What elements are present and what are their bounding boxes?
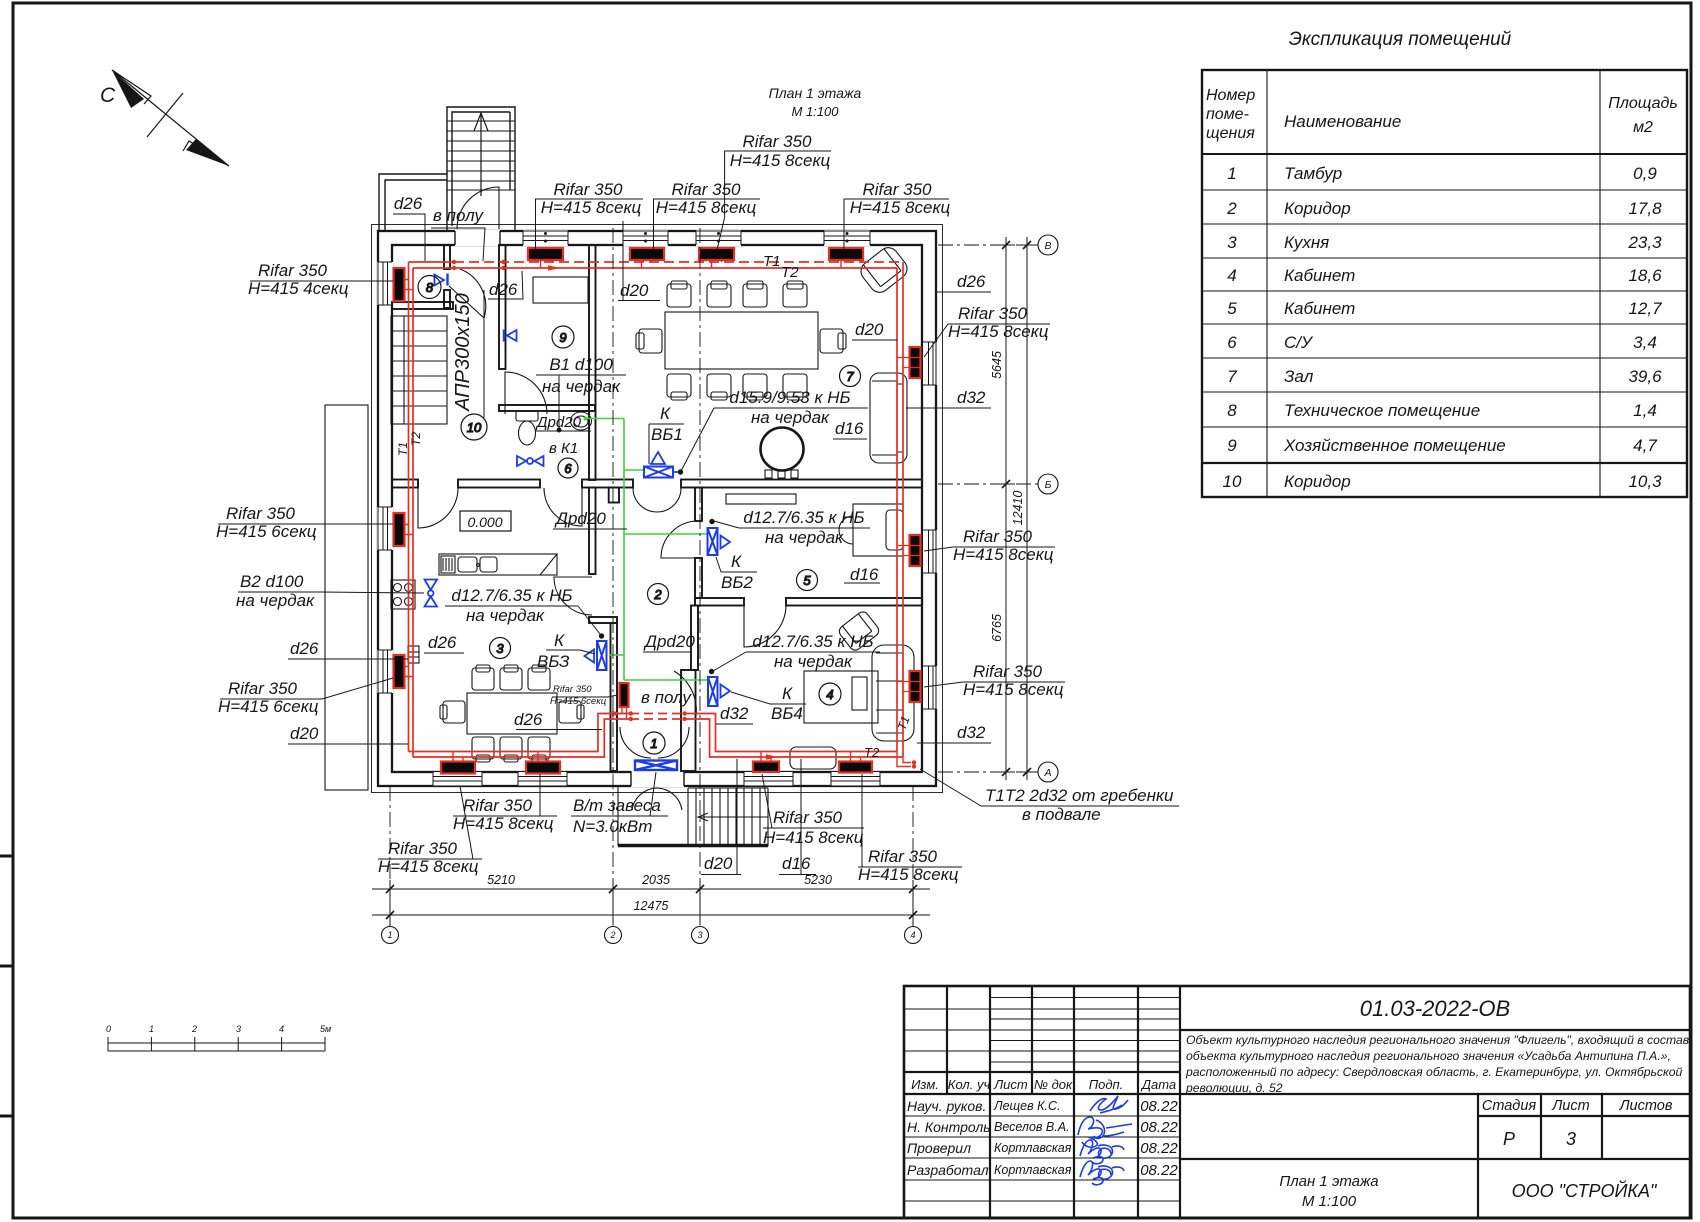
label K VB3 bracket [546, 650, 595, 654]
room9 door [505, 372, 547, 414]
axis circles bottom [382, 927, 922, 944]
washbasin [571, 412, 592, 430]
radiator branches bottom [453, 752, 463, 762]
svg-text:d12.7/6.35 к НБ: d12.7/6.35 к НБ [451, 586, 572, 605]
valve corridor10 [503, 330, 505, 342]
svg-text:2: 2 [1226, 199, 1237, 218]
top label A leader [535, 199, 643, 250]
svg-text:А: А [1043, 767, 1051, 779]
radiator right P2 [910, 535, 921, 566]
svg-text:H=415 8секц: H=415 8секц [858, 865, 959, 884]
round stove [761, 428, 804, 471]
tambour inner double door [620, 727, 689, 758]
svg-text:в К1: в К1 [549, 440, 578, 457]
tambour right wall [681, 670, 696, 771]
svg-text:d12.7/6.35 к НБ: d12.7/6.35 к НБ [743, 508, 864, 527]
dim line bottom 2 [372, 914, 930, 916]
label d15.9 leader [681, 408, 868, 471]
pipe T1 top dashed [409, 261, 455, 263]
label d20-hall underline [618, 221, 660, 301]
svg-text:12475: 12475 [634, 899, 669, 913]
svg-text:08.22: 08.22 [1140, 1098, 1178, 1115]
svg-text:Rifar 350: Rifar 350 [743, 132, 813, 151]
svg-text:3: 3 [1227, 233, 1237, 252]
svg-text:5230: 5230 [804, 873, 832, 887]
label d16-hall underline [833, 438, 867, 440]
svg-text:3: 3 [236, 1024, 241, 1034]
porch entrance opening in top wall [455, 230, 500, 246]
svg-text:М 1:100: М 1:100 [792, 104, 840, 119]
svg-text:3: 3 [496, 641, 504, 656]
radiator left L2 [394, 513, 405, 546]
pipe tambour dashed in floor [630, 714, 685, 720]
label L3 leader [220, 678, 393, 699]
radiator branches left [405, 280, 414, 290]
room5 shelf [726, 494, 796, 504]
label d32-right-bot underline [917, 742, 991, 744]
svg-text:10: 10 [467, 420, 482, 435]
pipe bottom right pair [685, 714, 903, 758]
svg-text:9: 9 [1227, 436, 1237, 455]
toilet [516, 411, 538, 421]
svg-text:d16: d16 [850, 565, 879, 584]
svg-text:2: 2 [653, 587, 662, 602]
svg-text:Rifar 350: Rifar 350 [226, 504, 296, 523]
label rifar-B4 leader [858, 774, 962, 867]
svg-text:расположенный по адресу: Св: расположенный по адресу: Свердловская об… [1185, 1065, 1683, 1079]
label d26-wall underline [424, 652, 464, 654]
svg-text:ВБ1: ВБ1 [651, 425, 683, 444]
label d26-left leader [288, 658, 408, 660]
svg-text:Коридор: Коридор [1284, 199, 1351, 218]
svg-text:d26: d26 [957, 272, 986, 291]
svg-text:Н. Контроль: Н. Контроль [907, 1119, 991, 1135]
svg-text:d15.9/9.53 к НБ: d15.9/9.53 к НБ [729, 388, 850, 407]
svg-text:В1 d100: В1 d100 [549, 355, 613, 374]
label B1d100 leader [536, 375, 626, 428]
svg-text:2: 2 [609, 930, 615, 940]
radiator top R3 [699, 248, 734, 260]
svg-text:К: К [731, 552, 742, 571]
svg-text:3,4: 3,4 [1633, 333, 1657, 352]
node room 9 [552, 326, 574, 348]
label L1 leader [250, 280, 393, 282]
svg-text:Изм.: Изм. [911, 1077, 939, 1092]
label d12.7 vb3 leader [445, 606, 600, 634]
label rifar-P2 leader [924, 547, 1055, 551]
svg-text:H=415 8секц: H=415 8секц [948, 322, 1049, 341]
svg-text:Лещев К.С.: Лещев К.С. [993, 1099, 1060, 1113]
pipe right vertical pair [897, 262, 903, 757]
svg-text:12,7: 12,7 [1628, 299, 1662, 318]
svg-text:План 1 этажа: План 1 этажа [769, 85, 862, 101]
svg-text:4: 4 [826, 687, 833, 702]
svg-text:Науч. руков.: Науч. руков. [907, 1098, 986, 1114]
label drd20-wc underline [535, 430, 591, 432]
node room 8 [418, 276, 441, 299]
room9 cupboard [533, 277, 588, 303]
label d26-kitchen underline [516, 729, 602, 731]
label K VB1 bracket [649, 424, 684, 464]
room4 door [744, 605, 786, 647]
room10-kitchen door [418, 488, 458, 528]
svg-text:Проверил: Проверил [907, 1140, 971, 1156]
svg-text:Кабинет: Кабинет [1284, 266, 1355, 285]
svg-text:d32: d32 [957, 388, 986, 407]
svg-text:3: 3 [697, 930, 702, 940]
label rifar-B1 leader [378, 786, 482, 859]
svg-text:ВБ2: ВБ2 [721, 573, 753, 592]
corridor2-tambour side arc [674, 671, 696, 716]
svg-text:щения: щения [1206, 125, 1255, 142]
svg-text:Подп.: Подп. [1089, 1077, 1124, 1092]
svg-text:5м: 5м [320, 1024, 331, 1034]
radiator bottom B1 [441, 762, 475, 774]
svg-text:8: 8 [426, 280, 434, 295]
svg-text:Т2: Т2 [864, 745, 880, 760]
wall room8 right [444, 245, 450, 269]
pipe bottom left pair [409, 714, 631, 758]
radiator top R1 [528, 248, 563, 260]
label d12.7 vb4 leader [713, 652, 880, 671]
svg-text:№ док: № док [1034, 1077, 1073, 1092]
room6 door [544, 488, 582, 526]
label d16-room5 underline [844, 582, 880, 584]
porch door [457, 187, 499, 229]
svg-text:в полу: в полу [433, 206, 484, 225]
label K VB4 bracket [731, 692, 806, 704]
svg-text:0,9: 0,9 [1633, 164, 1657, 183]
svg-text:d16: d16 [782, 854, 811, 873]
label d20-left leader [288, 743, 408, 745]
label d20-right underline [852, 339, 897, 341]
svg-text:H=415 8секц: H=415 8секц [541, 198, 642, 217]
svg-text:Техническое помещение: Техническое помещение [1284, 401, 1480, 420]
radiator branch tambour [622, 707, 627, 719]
radiator right P3 [910, 671, 921, 702]
label rifar-P3 leader [924, 682, 1065, 687]
svg-text:H=415 8секц: H=415 8секц [730, 151, 831, 170]
kitchen east wall [589, 488, 596, 575]
svg-text:объекта культурного наследия: объекта культурного наследия регионально… [1186, 1049, 1671, 1063]
scale bar [106, 1024, 331, 1051]
svg-text:Номер: Номер [1206, 87, 1255, 104]
svg-text:18,6: 18,6 [1628, 266, 1662, 285]
top label B leader [653, 199, 760, 250]
toilet valve group [517, 456, 544, 466]
radiator tambour [620, 683, 629, 707]
svg-text:на чердак: на чердак [466, 606, 545, 625]
window openings: top wall [523, 230, 870, 246]
wall room8 bottom [392, 302, 453, 309]
node room 7 [840, 366, 861, 387]
label apr duct line [483, 290, 485, 418]
label 0.000 frame [460, 511, 511, 531]
svg-text:К: К [554, 631, 565, 650]
svg-text:4,7: 4,7 [1633, 436, 1657, 455]
svg-text:Т2: Т2 [409, 432, 423, 446]
label rifar-P1 leader [924, 324, 1050, 357]
red heating pipes [405, 260, 921, 769]
node room 2 [648, 584, 669, 605]
middle horizontal wall segments [392, 480, 418, 488]
svg-text:6765: 6765 [990, 614, 1004, 642]
svg-text:м2: м2 [1633, 119, 1653, 136]
wall room9 / room6 [499, 405, 595, 411]
right vertical dims [997, 237, 1036, 780]
stair tower [447, 107, 515, 231]
svg-text:В2 d100: В2 d100 [240, 572, 304, 591]
svg-text:С/У: С/У [1284, 333, 1314, 352]
svg-text:d16: d16 [835, 419, 864, 438]
outer offset line [372, 225, 943, 793]
radiator branches right [897, 358, 921, 368]
labels with leaders [216, 132, 1179, 884]
wall room5 / room4 [695, 598, 744, 606]
node room 1 [643, 732, 665, 754]
node room 6 [558, 458, 578, 478]
svg-text:Rifar 350: Rifar 350 [258, 261, 328, 280]
fan VB1 [644, 452, 679, 478]
svg-text:10: 10 [1223, 472, 1242, 491]
axis 4 [912, 786, 914, 889]
svg-text:H=415 6секц: H=415 6секц [218, 697, 319, 716]
label drd20-corr2 underline [553, 528, 627, 530]
svg-text:H=415 8секц: H=415 8секц [453, 814, 554, 833]
svg-text:Rifar 350: Rifar 350 [773, 808, 843, 827]
svg-text:В: В [1044, 240, 1051, 252]
svg-text:АПР300х150: АПР300х150 [452, 293, 474, 411]
pipe T2 top solid [413, 267, 897, 269]
signatures [1078, 1096, 1132, 1185]
hall sofa right [870, 373, 907, 463]
label grebenka leader [920, 769, 1179, 806]
radiator top R4 [829, 248, 863, 260]
kitchen chairs [472, 668, 494, 690]
wall rooms9-6 / hall [589, 245, 596, 480]
kitchen stove [391, 580, 415, 609]
floor plan walls [325, 107, 943, 846]
stair steps [447, 121, 515, 190]
svg-text:в подвале: в подвале [1022, 805, 1101, 824]
svg-text:12410: 12410 [1011, 491, 1025, 526]
room4 sofa [872, 645, 914, 741]
label rifar-B2 leader [453, 774, 557, 816]
corridor2 east wall below room5 [691, 606, 698, 671]
svg-text:8: 8 [1227, 401, 1237, 420]
svg-text:С: С [100, 84, 116, 107]
svg-text:7: 7 [846, 369, 854, 384]
svg-text:Т2: Т2 [781, 264, 799, 281]
label d20-bottom leader [701, 759, 741, 875]
node room 10 [461, 414, 487, 440]
svg-text:d20: d20 [620, 281, 649, 300]
svg-text:d20: d20 [855, 320, 884, 339]
radiator right P1 [910, 347, 921, 378]
svg-text:H=415 6секц: H=415 6секц [550, 696, 607, 707]
svg-text:Б: Б [1045, 479, 1052, 491]
label d32-tambour underline [716, 723, 753, 725]
svg-text:Разработал: Разработал [907, 1162, 989, 1178]
svg-text:на чердак: на чердак [542, 377, 621, 396]
node room 5 [797, 570, 818, 591]
svg-text:9: 9 [559, 330, 566, 345]
axis 2 [612, 228, 614, 889]
svg-text:Rifar 350: Rifar 350 [672, 180, 742, 199]
room4 small table [852, 677, 867, 710]
svg-text:ВБ4: ВБ4 [771, 704, 803, 723]
svg-text:d26: d26 [514, 710, 543, 729]
label d32-right underline [906, 407, 991, 409]
svg-text:d32: d32 [720, 704, 749, 723]
svg-text:d32: d32 [957, 723, 986, 742]
svg-text:ВБЗ: ВБЗ [537, 652, 570, 671]
svg-text:Т1: Т1 [763, 253, 781, 270]
svg-text:Rifar 350: Rifar 350 [228, 679, 298, 698]
svg-text:Rifar 350: Rifar 350 [463, 796, 533, 815]
furniture [391, 244, 914, 769]
svg-text:Rifar 350: Rifar 350 [554, 180, 624, 199]
hall chairs top row [667, 281, 807, 307]
svg-text:К: К [660, 404, 671, 423]
svg-text:Площадь: Площадь [1608, 95, 1677, 112]
fan VB2 [708, 528, 731, 555]
svg-text:Р: Р [1503, 1129, 1515, 1149]
fan VB3 [585, 641, 607, 670]
svg-text:5: 5 [803, 573, 811, 588]
svg-text:H=415 8секц: H=415 8секц [378, 857, 479, 876]
exterior wall inner contour [392, 245, 922, 772]
dim line bottom 1 [372, 888, 930, 890]
kitchen door [554, 577, 592, 615]
green K pipes [584, 417, 709, 681]
svg-text:08.22: 08.22 [1140, 1140, 1178, 1157]
svg-text:Дата: Дата [1140, 1077, 1176, 1092]
svg-text:1: 1 [387, 930, 392, 940]
svg-text:Rifar 350: Rifar 350 [863, 180, 933, 199]
basement ladder in corridor10 [391, 316, 447, 424]
hall end chairs [639, 329, 662, 353]
svg-text:Т1Т2 2d32 от гребенки: Т1Т2 2d32 от гребенки [985, 786, 1174, 805]
label d26-right underline [937, 291, 991, 293]
wall corridor10 / rooms 9-6 [499, 245, 506, 369]
svg-text:Лист: Лист [993, 1077, 1028, 1092]
room5 door [661, 521, 698, 558]
svg-text:d26: d26 [489, 280, 518, 299]
svg-text:Rifar 350: Rifar 350 [973, 662, 1043, 681]
svg-text:Кортлавская: Кортлавская [994, 1163, 1072, 1177]
air curtain [635, 761, 677, 771]
manifold stub bottom right [897, 752, 911, 767]
svg-text:на чердак: на чердак [751, 408, 830, 427]
svg-text:17,8: 17,8 [1628, 199, 1662, 218]
svg-text:Кабинет: Кабинет [1284, 299, 1355, 318]
svg-text:5210: 5210 [487, 873, 515, 887]
axes and dimensions [372, 228, 1058, 944]
room8 door [449, 269, 486, 318]
svg-text:Лист: Лист [1551, 1098, 1589, 1114]
svg-text:1: 1 [1227, 164, 1236, 183]
hall chairs bottom row [667, 374, 807, 400]
hall double door [633, 488, 681, 512]
radiator top R2 [630, 248, 664, 260]
room4 armchair [837, 610, 881, 653]
svg-text:Веселов В.А.: Веселов В.А. [994, 1120, 1070, 1134]
hall dining table [665, 312, 818, 369]
window openings: left wall [377, 262, 393, 693]
svg-text:08.22: 08.22 [1140, 1162, 1178, 1179]
label K VB2 bracket [716, 557, 757, 572]
svg-text:H=415 8секц: H=415 8секц [850, 198, 951, 217]
svg-text:4: 4 [279, 1024, 284, 1034]
svg-text:0: 0 [106, 1024, 111, 1034]
flow arrows [548, 265, 560, 271]
label B2d100 leader [238, 592, 424, 593]
explication table [1202, 29, 1687, 497]
svg-text:Кол. уч: Кол. уч [948, 1077, 991, 1092]
svg-text:1: 1 [149, 1024, 154, 1034]
label d26-room9 underline [488, 271, 523, 299]
svg-text:Зал: Зал [1284, 367, 1314, 386]
kitchen counter [439, 554, 557, 575]
svg-text:Тамбур: Тамбур [1284, 164, 1342, 183]
svg-text:Rifar 350: Rifar 350 [388, 839, 458, 858]
svg-text:5645: 5645 [990, 351, 1004, 379]
radiator branches top [405, 260, 921, 762]
pipe fittings dots tambour [629, 711, 633, 715]
doors [418, 187, 786, 810]
svg-text:H=415 4секц: H=415 4секц [248, 279, 349, 298]
svg-text:революции, д. 52: революции, д. 52 [1185, 1081, 1283, 1095]
svg-text:Экспликация помещений: Экспликация помещений [1289, 29, 1512, 50]
node room 3 [490, 638, 511, 659]
room5 desk [853, 504, 903, 556]
stair direction arrow [474, 113, 488, 196]
axis B2 row [938, 483, 1042, 485]
plan title [769, 85, 862, 119]
svg-text:Rifar 350: Rifar 350 [553, 684, 592, 695]
label rifar-tambour leader [552, 695, 617, 697]
entrance outside steps [688, 788, 768, 846]
label d16-bottom leader [779, 759, 816, 875]
radiators [394, 248, 921, 774]
svg-text:1,4: 1,4 [1633, 401, 1657, 420]
room4 bench bottom [790, 747, 836, 769]
radiator bottom B3 [753, 762, 779, 773]
radiator left L3 [394, 655, 405, 688]
svg-text:Кортлавская: Кортлавская [994, 1141, 1072, 1155]
svg-text:Кухня: Кухня [1284, 233, 1329, 252]
svg-text:08.22: 08.22 [1140, 1119, 1178, 1136]
svg-text:0.000: 0.000 [467, 514, 502, 530]
axis B row [938, 244, 1042, 246]
valve room8 [435, 275, 445, 286]
svg-text:7: 7 [1227, 367, 1237, 386]
wall corridor2 / room5 [695, 488, 702, 522]
axis 1 [389, 786, 391, 889]
tambour left wall [611, 623, 618, 771]
svg-text:39,6: 39,6 [1628, 367, 1662, 386]
label d26-porch leader [393, 214, 425, 261]
north arrow [100, 70, 229, 166]
label vpolu-porch leader [431, 228, 485, 261]
label d12.7 vb2 leader [714, 521, 870, 528]
interior walls [392, 245, 922, 771]
svg-text:Наименование: Наименование [1284, 112, 1401, 131]
svg-text:d20: d20 [290, 724, 319, 743]
svg-text:В/m завеса: В/m завеса [573, 796, 661, 815]
svg-text:М 1:100: М 1:100 [1302, 1193, 1357, 1210]
